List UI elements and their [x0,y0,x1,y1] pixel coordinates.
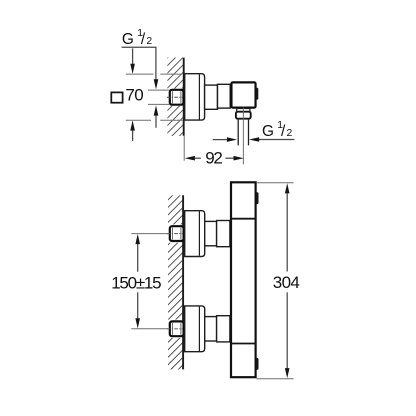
outlet nipple [237,109,250,112]
leader arrowhead down at thread top [154,79,159,89]
lower union nut [170,321,184,336]
upper escutcheon inner line [198,211,200,255]
upper connector cylinder B [217,221,230,247]
extension line upper axis [131,233,169,235]
wall extension line down to 92 dimension [183,136,185,161]
square symbol of dimension 70 [111,92,122,102]
lower connector cylinder A [205,317,217,341]
label G 1/2 (upper) [122,28,152,48]
svg-text:G: G [262,123,274,140]
outlet axis center line [242,108,244,165]
lower axis dash-dot line [167,328,183,330]
svg-text:/: / [141,31,146,48]
escutcheon flange on wall (top drawing) [185,74,205,120]
outlet pipe left edge [237,119,239,146]
body division line lower [231,343,256,345]
wall surface line (top drawing) [183,58,185,136]
lower escutcheon [185,306,205,352]
dimension 304 lower arrow [286,292,288,368]
flange inner face line [198,74,200,119]
leader line from G 1/2 to inlet thread [122,47,156,79]
extension line at flange bottom (left segment) [126,119,151,121]
outlet pipe right edge [248,119,250,146]
lower connector cylinder B [217,316,230,342]
inlet axis dash-dot center line [167,96,183,98]
nut chamfer line left [171,91,173,103]
thread bracket arrow up at nut bottom [154,105,159,115]
upper connector cylinder A [205,221,217,245]
dimension 92 line right segment with arrow [225,157,233,159]
dimension 92 line left segment with arrow [185,156,195,161]
extension line lower axis [131,328,169,330]
dimension 150±15 upper arrow [135,234,140,244]
hatch clearance around inlet nut [166,89,185,106]
dimension 70: upper arrow [132,48,134,64]
svg-text:2: 2 [287,128,293,139]
inlet square nut behind wall [170,90,184,105]
svg-text:92: 92 [205,149,223,168]
label G 1/2 (outlet) [262,120,293,140]
upper axis dash-dot line [167,233,183,235]
body cylinder section A [205,85,218,109]
svg-text:/: / [281,123,286,140]
body division line upper [231,218,256,220]
tick on valve left edge [230,93,232,97]
svg-text:304: 304 [273,273,300,292]
nut chamfer line right [180,91,182,103]
extension line at flange bottom (right segment) [160,119,183,121]
knob bump lower right [256,358,259,370]
hatch clearance around lower union nut [166,320,185,338]
dimension 70: lower arrow [130,120,135,130]
hatch clearance around upper union nut [166,224,185,242]
thread bracket arrow tail [155,115,157,128]
lower nut chamfer left [171,323,173,335]
svg-text:70: 70 [125,86,143,105]
extension line at flange top (right segment) [160,73,181,75]
svg-text:2: 2 [146,36,152,47]
extension line at flange top (left segment) [126,73,154,75]
knob bump upper right [256,192,259,204]
lower escutcheon inner line [198,307,200,351]
wall hatching (bottom drawing) [168,195,183,369]
wall surface line (bottom drawing) [182,195,184,369]
dimension 304 upper arrow [285,183,290,193]
square valve body [231,82,255,107]
extension line body top [256,182,293,184]
upper nut chamfer left [171,228,173,240]
svg-text:G: G [122,31,134,48]
lower nut chamfer right [180,323,182,335]
hose union nut [236,112,251,119]
svg-text:150±15: 150±15 [111,273,161,292]
extension line at nut top [148,89,170,91]
body cylinder section B [218,84,231,108]
leader of outlet G 1/2 with left arrow [257,139,294,141]
wall hatching (top drawing) [167,58,183,137]
mixer body [231,182,256,377]
extension line body bottom [256,378,293,380]
clip bump on right of valve body [256,88,259,100]
dimension 150±15 lower arrow [137,292,139,318]
upper escutcheon [185,211,205,257]
outlet bracket arrow pointing right at pipe [213,139,228,141]
upper union nut [170,226,184,241]
upper nut chamfer right [180,228,182,240]
extension line at nut bottom [148,103,170,105]
